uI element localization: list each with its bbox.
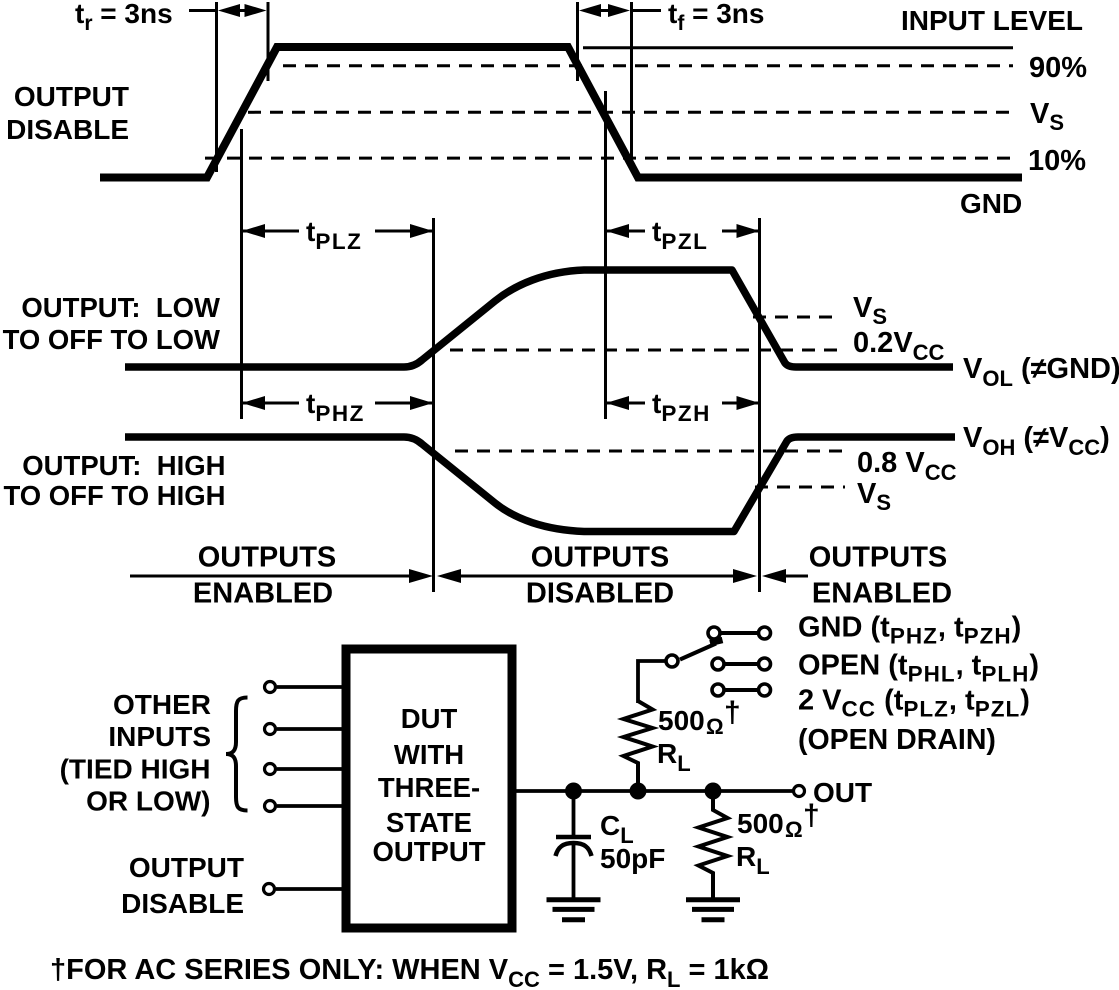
input level reference line <box>583 46 1013 49</box>
svg-text:50pF: 50pF <box>600 843 665 874</box>
switch contact GND bar <box>721 631 757 635</box>
ground under RL2 <box>686 900 740 920</box>
svg-text:tPHZ: tPHZ <box>306 388 365 426</box>
dashed level 0.2VCC <box>450 349 841 352</box>
switch contact OPEN left <box>712 658 724 670</box>
svg-text:OUTPUTS: OUTPUTS <box>531 542 670 574</box>
node junction CL <box>565 783 582 800</box>
outputs region divider arrowheads at right marker <box>733 569 786 583</box>
svg-text:RL: RL <box>736 841 770 879</box>
label OTHER INPUTS (TIED HIGH OR LOW) <box>60 689 211 817</box>
svg-text:DUT: DUT <box>401 703 458 734</box>
svg-text:2 VCC (tPLZ, tPZL): 2 VCC (tPLZ, tPZL) <box>798 685 1030 722</box>
marker line tPZL left (VS crossing of fall) <box>604 91 607 419</box>
marker line tf left <box>576 2 579 81</box>
svg-text:tPLZ: tPLZ <box>306 216 362 254</box>
svg-text:TO OFF TO HIGH: TO OFF TO HIGH <box>3 480 225 511</box>
capacitor CL top plate <box>556 835 591 840</box>
svg-text:90%: 90% <box>1029 52 1087 84</box>
input terminal 2 <box>265 724 276 735</box>
input terminal 1 <box>265 682 276 693</box>
switch contact OPEN right <box>759 658 771 670</box>
dashed level 0.8VCC <box>455 450 845 453</box>
marker line output Z transition left <box>432 218 435 592</box>
switch contact GND left <box>708 627 720 639</box>
resistor RL1 <box>624 701 653 791</box>
svg-text:INPUTS: INPUTS <box>108 721 211 752</box>
switch contact 2VCC right <box>759 684 771 696</box>
dashed level VS mid1 <box>753 316 841 319</box>
svg-text:THREE-: THREE- <box>378 772 480 803</box>
marker line tPLZ left (VS crossing of rise) <box>240 129 243 419</box>
wire output disable <box>276 887 342 891</box>
node junction RL1 <box>630 783 647 800</box>
output disable terminal <box>264 884 275 895</box>
svg-text:TO OFF TO LOW: TO OFF TO LOW <box>3 324 220 355</box>
outputs region divider arrowheads at left marker <box>409 569 461 583</box>
capacitor CL <box>572 791 576 835</box>
switch S1 blade <box>680 644 716 660</box>
switch contact OPEN bar <box>725 662 757 666</box>
dimension arrow tr <box>218 4 267 17</box>
svg-text:GND (tPHZ, tPZH): GND (tPHZ, tPZH) <box>798 612 1021 649</box>
node junction RL2 <box>705 783 722 800</box>
outputs region divider line right <box>784 575 808 578</box>
marker line tr right <box>267 2 270 81</box>
svg-text:VS: VS <box>1030 98 1064 135</box>
svg-text:†FOR AC SERIES ONLY: WHEN VCC: †FOR AC SERIES ONLY: WHEN VCC = 1.5V, RL… <box>50 954 769 990</box>
svg-text:DISABLE: DISABLE <box>121 888 244 919</box>
ground under CL <box>547 900 601 920</box>
svg-text:Ω: Ω <box>706 714 724 739</box>
svg-text:INPUT LEVEL: INPUT LEVEL <box>901 5 1083 36</box>
dimension arrow tf <box>579 4 630 17</box>
marker line output enable right <box>758 218 761 592</box>
svg-text:10%: 10% <box>1028 145 1086 177</box>
svg-text:VOH (≠VCC): VOH (≠VCC) <box>963 422 1110 460</box>
label DUT WITH THREE-STATE OUTPUT <box>372 703 485 867</box>
waveform output low to off to low <box>125 270 953 367</box>
DUT box U1 <box>346 649 512 928</box>
switch contact 2VCC left <box>712 684 724 696</box>
svg-text:DISABLED: DISABLED <box>526 578 674 610</box>
svg-text:OUTPUT: OUTPUT <box>129 852 244 883</box>
svg-text:DISABLE: DISABLE <box>6 114 129 145</box>
wire CL to ground <box>572 845 576 898</box>
capacitor CL curved plate <box>556 843 592 856</box>
terminal OUT <box>794 786 805 797</box>
svg-text:500: 500 <box>658 705 705 736</box>
svg-text:WITH: WITH <box>394 739 464 770</box>
switch contact 2VCC bar <box>725 688 757 692</box>
svg-text:ENABLED: ENABLED <box>193 578 333 610</box>
input terminal 3 <box>265 764 276 775</box>
dimension arrow tPZH <box>606 396 760 410</box>
svg-text:VOL (≠GND): VOL (≠GND) <box>963 353 1119 391</box>
outputs region divider line left <box>130 575 412 578</box>
svg-text:500: 500 <box>737 808 784 839</box>
marker line tr left <box>215 2 218 172</box>
svg-text:OUTPUTS: OUTPUTS <box>198 542 337 574</box>
svg-text:RL: RL <box>657 738 691 776</box>
wire input 1 <box>277 685 342 689</box>
brace for other inputs <box>226 698 248 811</box>
dimension arrow tPHZ <box>242 396 433 410</box>
svg-text:OTHER: OTHER <box>113 689 211 720</box>
svg-text:STATE: STATE <box>386 807 472 838</box>
svg-text:†: † <box>803 799 820 832</box>
svg-text:OUTPUT: OUTPUT <box>14 81 129 112</box>
svg-text:tr = 3ns: tr = 3ns <box>75 0 173 35</box>
svg-text:VS: VS <box>853 292 887 329</box>
dashed level 10% <box>205 157 1013 160</box>
svg-text:†: † <box>724 696 741 729</box>
svg-text:OUTPUT: HIGH: OUTPUT: HIGH <box>22 450 225 481</box>
switch S1 blade tip <box>710 640 723 643</box>
svg-text:VS: VS <box>857 478 891 515</box>
svg-text:tf = 3ns: tf = 3ns <box>668 0 765 35</box>
svg-text:0.2VCC: 0.2VCC <box>853 327 945 365</box>
svg-text:(TIED HIGH: (TIED HIGH <box>60 754 211 785</box>
svg-text:tPZH: tPZH <box>652 388 711 426</box>
wire input 2 <box>277 727 342 731</box>
wire input 3 <box>277 767 342 771</box>
svg-text:OUTPUT: OUTPUT <box>372 836 485 867</box>
switch contact GND right <box>759 627 771 639</box>
svg-text:ENABLED: ENABLED <box>812 578 952 610</box>
waveform output high to off to high <box>125 437 955 532</box>
svg-text:tPZL: tPZL <box>652 216 708 254</box>
marker line tf right <box>630 2 633 166</box>
svg-text:Ω: Ω <box>785 817 803 842</box>
input waveform OUTPUT DISABLE <box>100 47 1022 178</box>
resistor RL2 <box>699 791 728 898</box>
svg-text:OUTPUT: LOW: OUTPUT: LOW <box>21 292 220 323</box>
wire switch pole to RL1 <box>638 661 665 703</box>
dimension arrow tPLZ <box>242 224 433 238</box>
wire DUT output to OUT <box>516 789 793 793</box>
label OUTPUT DISABLE bottom <box>121 852 244 919</box>
input terminal 4 <box>265 801 276 812</box>
dashed level VS input <box>248 111 1013 114</box>
leader line tf label <box>631 9 661 12</box>
svg-text:OUT: OUT <box>813 777 872 808</box>
dimension arrow tPZL <box>606 224 760 238</box>
switch S1 pole <box>666 655 678 667</box>
dashed level VS mid2 <box>755 486 845 489</box>
svg-text:(OPEN DRAIN): (OPEN DRAIN) <box>798 724 996 756</box>
wire input 4 <box>277 804 342 808</box>
outputs region divider line middle <box>459 575 736 578</box>
dashed level 90% <box>283 64 1013 67</box>
svg-text:OPEN (tPHL, tPLH): OPEN (tPHL, tPLH) <box>798 650 1039 687</box>
svg-text:OUTPUTS: OUTPUTS <box>809 542 948 574</box>
svg-text:OR LOW): OR LOW) <box>86 786 210 817</box>
svg-text:GND: GND <box>960 188 1022 219</box>
leader line tr label <box>189 9 217 12</box>
